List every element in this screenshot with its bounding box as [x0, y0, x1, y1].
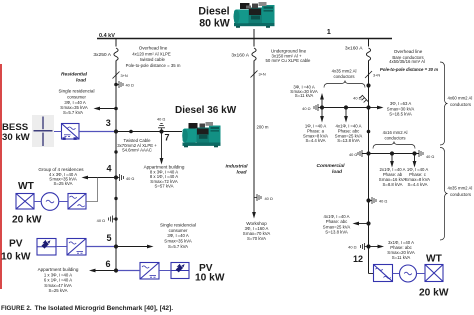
svg-text:The Isolated Microgrid Benchma: The Isolated Microgrid Benchmark [40], [… — [35, 305, 174, 312]
junction at branch line 1 — [366, 105, 370, 109]
wire: right feeder main — [368, 61, 370, 274]
load arrow down branch2 mid — [391, 154, 393, 163]
svg-text:1: 1 — [327, 27, 331, 36]
svg-text:80 kW: 80 kW — [199, 18, 230, 30]
svg-text:Diesel 36 kW: Diesel 36 kW — [175, 105, 237, 116]
svg-text:6: 6 — [106, 259, 111, 269]
load arrow: single residential consumer right of node5 — [116, 246, 149, 248]
svg-text:3x160 A: 3x160 A — [345, 46, 363, 52]
main 0.4 kV busbar — [97, 38, 392, 40]
wire: WT1 converter to node4 lateral — [86, 178, 98, 202]
svg-text:3+N: 3+N — [373, 73, 380, 78]
junction cable change — [129, 130, 133, 134]
wire: BESS to node3 (blue) — [79, 131, 114, 133]
load arrow: workshop — [252, 212, 256, 219]
ground 40ohm on middle feeder — [254, 194, 261, 201]
converter U3 (PV1 DC/AC) — [67, 239, 86, 256]
svg-text:40 Ω: 40 Ω — [348, 245, 356, 250]
load arrow left y223.5 — [366, 221, 370, 225]
junction y131.5 right feeder — [367, 130, 371, 134]
svg-text:4x60 mm2 Al: 4x60 mm2 Al — [448, 96, 473, 101]
red margin rule — [0, 64, 2, 289]
svg-text:conductors: conductors — [450, 102, 471, 107]
svg-text:3: 3 — [106, 118, 111, 128]
node 3 junction — [114, 129, 118, 133]
svg-text:conductors: conductors — [333, 74, 354, 79]
battery B1 (BESS) — [32, 115, 54, 147]
svg-text:load: load — [76, 78, 87, 84]
svg-text:40 Ω: 40 Ω — [302, 106, 310, 111]
svg-text:Single residencial: Single residencial — [58, 89, 94, 94]
hatched earth 40ohm on right feeder — [360, 95, 369, 102]
brace: 4x60 mm2 Al conductors (right margin) — [440, 62, 448, 145]
generator G-WT2 (circle ~) — [400, 265, 417, 282]
svg-text:40 Ω: 40 Ω — [126, 176, 134, 181]
svg-text:10 kW: 10 kW — [1, 252, 31, 263]
node 7 junction — [159, 129, 163, 133]
svg-text:conductors: conductors — [384, 135, 405, 140]
ground 40ohm right of branch2 — [419, 150, 423, 157]
junction branch2 right — [412, 151, 416, 155]
svg-text:40 Ω: 40 Ω — [353, 96, 361, 101]
svg-text:conductors: conductors — [450, 192, 471, 197]
svg-text:S=11 kVA: S=11 kVA — [295, 93, 314, 98]
wire: node3 to diesel36 lateral — [116, 131, 182, 133]
svg-text:Appartment building: Appartment building — [38, 267, 79, 272]
svg-text:40 Ω: 40 Ω — [265, 196, 273, 201]
svg-text:40 Ω: 40 Ω — [157, 117, 165, 122]
converter U2 (WT1 AC/AC) — [68, 194, 86, 210]
ground 40ohm above node7 — [158, 123, 165, 131]
svg-text:S=4.4 kVA: S=4.4 kVA — [305, 138, 325, 143]
svg-text:S=11 kVA: S=11 kVA — [392, 255, 411, 260]
svg-text:4x120 mm² Al XLPE: 4x120 mm² Al XLPE — [132, 52, 171, 57]
load arrow: appartment building at node6 — [95, 270, 117, 272]
svg-text:S=4.4 kVA: S=4.4 kVA — [407, 182, 427, 187]
svg-text:S=70 kVA: S=70 kVA — [247, 236, 266, 241]
svg-text:200 m: 200 m — [257, 125, 269, 130]
svg-text:Residential: Residential — [61, 72, 88, 78]
svg-text:twisted cable: twisted cable — [140, 57, 165, 62]
wind turbine WT2 gearbox (x-box) — [425, 265, 443, 282]
junction branch2 on feeder — [366, 151, 370, 155]
generator G-WT1 (circle ~) — [41, 193, 59, 211]
wire: WT1 rotor-generator — [34, 201, 41, 203]
fuse F3 3x160 A — [366, 48, 370, 61]
brace: 4x16 mm2 Al conductors over branch2 — [373, 142, 415, 149]
load arrow: group of 4 residences — [87, 177, 116, 179]
svg-text:3x250 A: 3x250 A — [93, 52, 111, 58]
svg-text:WT: WT — [18, 181, 35, 192]
node 4 junction — [114, 175, 118, 179]
svg-text:54.6mm² AAAC: 54.6mm² AAAC — [122, 147, 152, 152]
brace: 4x35 mm2 Al conductors (right margin) — [440, 148, 448, 241]
converter U5 (WT2 AC/AC) — [374, 265, 393, 282]
svg-text:5: 5 — [107, 233, 112, 243]
conductor mark 3+N — [251, 71, 258, 78]
junction + ground 40ohm at y219 — [114, 217, 117, 220]
svg-text:S=5.7 kVA: S=5.7 kVA — [168, 244, 188, 249]
svg-text:0.4 kV: 0.4 kV — [99, 33, 115, 39]
wire: WT1 generator-converter — [59, 201, 68, 203]
diesel genset image 36kW — [182, 122, 220, 147]
svg-text:Pole-to-pole distance = 35 m: Pole-to-pole distance = 35 m — [126, 63, 181, 68]
node 5 junction — [114, 244, 118, 248]
ground 40ohm right of node4 — [116, 174, 124, 181]
svg-text:6 x 1Φ, I =40 A: 6 x 1Φ, I =40 A — [44, 277, 72, 282]
wire: node6 to PV2 converter (blue) — [118, 270, 140, 272]
junction branch2 mid — [390, 151, 394, 155]
PV array PV2 — [171, 263, 189, 279]
junction y198.5 — [114, 197, 117, 200]
load arrow: single residential consumer node — [114, 107, 118, 111]
svg-text:PV: PV — [9, 239, 23, 250]
conductor mark 3+N — [365, 71, 372, 78]
svg-text:30 kW: 30 kW — [2, 132, 31, 143]
converter U4 (PV2 DC/AC) — [140, 263, 159, 280]
svg-text:WT: WT — [426, 254, 443, 265]
svg-text:Phase: abc: Phase: abc — [326, 219, 348, 224]
svg-text:4x35 mm2 Al: 4x35 mm2 Al — [448, 186, 473, 191]
svg-text:load: load — [236, 170, 247, 176]
fuse F1 3x250 A — [114, 48, 118, 61]
load arrow down branch2 right — [414, 154, 416, 163]
svg-text:Diesel: Diesel — [198, 6, 229, 18]
svg-text:20 kW: 20 kW — [12, 215, 42, 226]
svg-text:S=8.8 kVA: S=8.8 kVA — [382, 182, 402, 187]
svg-text:3Φ, I =40 A: 3Φ, I =40 A — [167, 233, 189, 238]
node 12 junction — [366, 244, 370, 248]
brace: 4x35 mm2 Al conductors over branch1 — [324, 81, 365, 88]
svg-text:Single residencial: Single residencial — [160, 223, 196, 228]
wire: PV1 panel-converter — [56, 246, 67, 248]
svg-text:4: 4 — [107, 164, 112, 174]
svg-text:3x160 A: 3x160 A — [231, 53, 249, 59]
load arrow right: 3ph 63A — [369, 107, 379, 109]
diesel genset image 80kW — [234, 2, 275, 28]
wire: battery to converter — [54, 131, 62, 133]
svg-text:S=25 kVA: S=25 kVA — [49, 288, 68, 293]
svg-text:7: 7 — [165, 133, 170, 143]
svg-text:40 Ω: 40 Ω — [426, 154, 434, 159]
wire: PV1 converter to node5 (blue) — [86, 246, 114, 248]
wire: WT2 converter-generator — [393, 273, 400, 275]
wire: right feeder upper — [368, 39, 370, 47]
wire: left feeder main — [115, 61, 117, 271]
svg-text:S=13.8 kVA: S=13.8 kVA — [337, 138, 360, 143]
converter U1 (BESS AC/DC) — [62, 124, 80, 140]
ground 40ohm left of node12 — [361, 243, 369, 250]
node at left end of branch 1 — [320, 105, 324, 109]
svg-text:S=57 kVA: S=57 kVA — [155, 184, 174, 189]
wire: elbow to WT converter — [369, 273, 374, 275]
svg-text:Pole-to-pole distance = 30 m: Pole-to-pole distance = 30 m — [380, 67, 438, 72]
svg-text:40 Ω: 40 Ω — [349, 152, 357, 157]
wire: diesel 80kW drop to bus — [253, 29, 255, 39]
load arrow up — [321, 98, 323, 108]
PV array PV1 — [37, 239, 56, 256]
load arrow: appartment building at node7 — [161, 132, 163, 160]
junction below 3+N — [366, 83, 370, 87]
svg-text:Industrial: Industrial — [225, 164, 248, 170]
svg-text:10 kW: 10 kW — [195, 273, 225, 284]
wire: branch line 2 — [362, 153, 419, 155]
svg-text:S=18.5 kVA: S=18.5 kVA — [389, 111, 412, 116]
svg-text:4x50/35/16 mm² Al: 4x50/35/16 mm² Al — [389, 59, 425, 64]
svg-text:load: load — [332, 169, 343, 175]
svg-text:50 mm² Cu XLPE cable: 50 mm² Cu XLPE cable — [266, 58, 312, 63]
load arrow down — [321, 108, 323, 118]
conductor mark 3+N — [113, 72, 120, 79]
svg-text:3+N: 3+N — [259, 72, 266, 77]
svg-text:3+N: 3+N — [121, 73, 128, 78]
svg-text:4x35 mm2 Al: 4x35 mm2 Al — [332, 69, 357, 74]
fuse F2 3x160 A — [252, 48, 256, 61]
junction + ground 40ohm y200.5 — [366, 198, 370, 202]
wire: middle feeder main — [253, 61, 255, 214]
wire: middle feeder upper — [253, 39, 255, 47]
svg-text:12: 12 — [353, 254, 363, 264]
svg-text:S=25 kVA: S=25 kVA — [54, 181, 73, 186]
wire: PV2 converter-panel — [159, 270, 171, 272]
svg-text:40 Ω: 40 Ω — [379, 199, 387, 204]
svg-text:S=13.8 kVA: S=13.8 kVA — [325, 229, 348, 234]
load arrow down mid branch1 — [345, 108, 347, 118]
node 6 junction — [114, 268, 118, 272]
svg-text:40 Ω: 40 Ω — [97, 218, 105, 223]
svg-text:S max=35 kVA: S max=35 kVA — [164, 238, 192, 243]
svg-text:FIGURE 2.: FIGURE 2. — [1, 305, 32, 312]
svg-text:20 kW: 20 kW — [419, 288, 449, 299]
wire: branch line 1 — [322, 107, 369, 109]
wire: left feeder upper — [115, 39, 117, 47]
junction + ground 40ohm at y84.5 — [114, 83, 118, 87]
svg-text:3Φ, I =63 A: 3Φ, I =63 A — [390, 101, 412, 106]
junction y152 — [114, 150, 117, 153]
svg-text:Overhead line: Overhead line — [394, 49, 423, 54]
svg-text:Commercial: Commercial — [317, 163, 346, 169]
svg-text:40 Ω: 40 Ω — [126, 83, 134, 88]
ground 40ohm left of branch2 — [358, 150, 362, 157]
svg-text:4x16 mm2 Al: 4x16 mm2 Al — [383, 130, 408, 135]
load arrow right of node12 — [369, 246, 380, 248]
junction mid branch1 — [344, 105, 348, 109]
svg-text:Overhead line: Overhead line — [139, 45, 168, 50]
wind turbine WT1 gearbox (x-box) — [16, 194, 34, 210]
svg-text:consumer: consumer — [67, 95, 86, 100]
ground 40ohm left of branch1 end — [314, 104, 322, 111]
svg-text:S=5.7 kVA: S=5.7 kVA — [63, 110, 83, 115]
wire: WT2 generator-gearbox — [417, 273, 426, 275]
